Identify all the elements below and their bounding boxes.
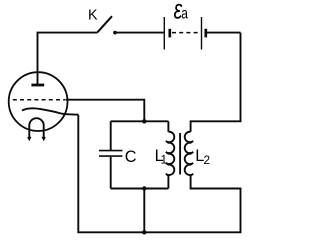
svg-text:a: a — [181, 4, 188, 22]
svg-text:C: C — [125, 148, 137, 166]
svg-text:K: K — [88, 8, 98, 24]
svg-text:2: 2 — [204, 153, 211, 167]
svg-text:1: 1 — [161, 153, 168, 167]
